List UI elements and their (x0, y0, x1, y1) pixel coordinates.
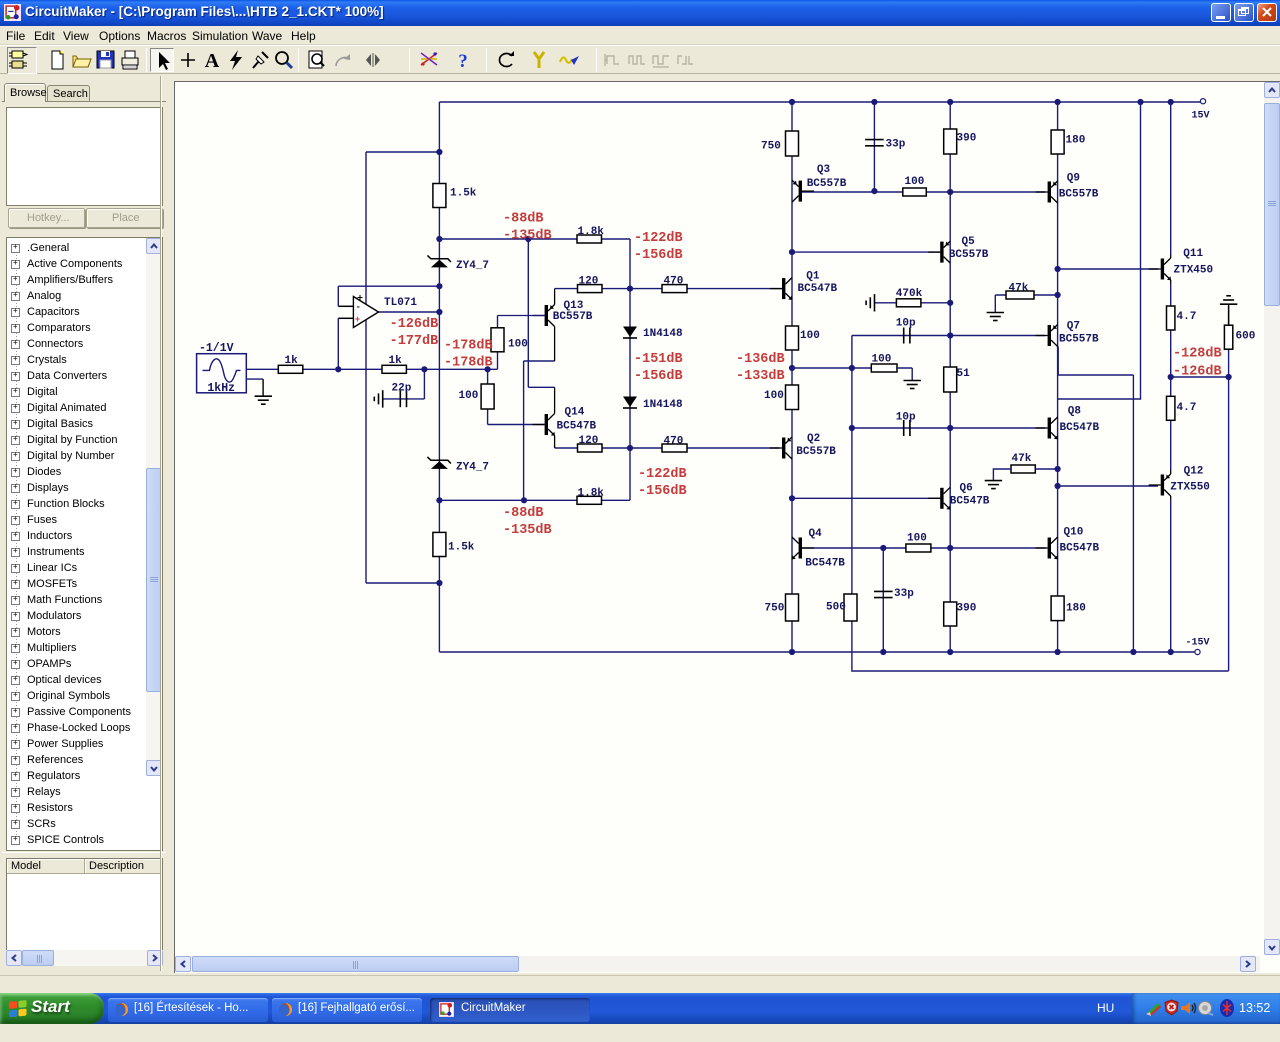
tree scrollbar (146, 238, 162, 776)
wire Q5/Q6 C-E column x950 (949, 192, 951, 652)
language (1097, 1001, 1114, 1015)
wire Q9/Q7 column x1058 (1057, 154, 1059, 399)
resistor R 120 (upper) (578, 285, 603, 293)
wire output node wire y377 (1171, 376, 1229, 378)
resistor R 1k (feedback) (382, 365, 406, 373)
transistor Q10 BC547B (1036, 537, 1058, 559)
wire 600/output column x1229 (1228, 307, 1230, 671)
resistor R 180 (lower) (1051, 596, 1064, 621)
node out-600 (1226, 374, 1232, 380)
resistor R 120 (lower) (578, 444, 603, 452)
ground ground G3 (470k) (866, 294, 874, 311)
node in+ (335, 366, 341, 372)
node rail-33p (871, 99, 877, 105)
node fb-in (436, 283, 442, 289)
resistor R 100 (Q13 base) (491, 328, 504, 352)
wire opamp -in riser (337, 286, 339, 306)
wire +15V top rail y102 (439, 101, 1203, 103)
wire source ground stub (262, 379, 264, 396)
resistor R 1k (input) (278, 365, 303, 373)
node 47k1 (1055, 292, 1061, 298)
ground ground G4 (100) (904, 381, 921, 389)
node 390-base (947, 189, 953, 195)
wire 33p-2 column x883 (882, 548, 884, 652)
resistor R 600 (1224, 325, 1232, 349)
transistor Q13 BC557B (533, 289, 555, 361)
wire zener node to 1.8k wire y239 (439, 238, 630, 240)
wire Q3-base / 390 / Q9-base net y192 (801, 191, 1046, 193)
resistor R 750 (upper) (786, 131, 799, 156)
resistor R 390 (lower) (944, 602, 957, 626)
transistor Q3 BC557B (792, 180, 814, 202)
start button (0, 993, 104, 1024)
capacitor C 33p (upper) (865, 140, 884, 146)
wire Q8 node to Q12-base wire y486 (1058, 485, 1158, 487)
wire opamp -in stub (338, 305, 353, 307)
wire Q14-emitter /120/470/ Q2-base wire y448 (555, 447, 779, 449)
signal generator V1 -1/1V 1kHz (197, 354, 247, 393)
wire Q13-emitter /120/470/ Q1-base wire y288 (555, 288, 782, 290)
ground ground G7 (600 top) (1220, 296, 1237, 304)
wire Q7 collector jog to x1133 (1058, 347, 1133, 376)
node rail-180 (1055, 99, 1061, 105)
node 10p2 (947, 425, 953, 431)
wire Q14 collector jog y387 (528, 386, 554, 388)
wire Q11/Q12 emitter column x1171 (1170, 284, 1172, 470)
wire 47k ground stub x995 (994, 295, 996, 313)
terminal +15V (1200, 99, 1205, 104)
node rail-390b (947, 649, 953, 655)
node rail-33p2 (880, 649, 886, 655)
wire -15V bottom rail y652 (439, 651, 1197, 653)
resistor R 47k (upper) (1006, 291, 1034, 299)
node diode-top (627, 286, 633, 292)
wire output return bottom loop y671 (852, 652, 1229, 671)
node q9c (1055, 266, 1061, 272)
wire feedback/500 column x852 (upper) (851, 336, 853, 653)
tree box (6, 237, 163, 851)
node q12-base-t (1055, 483, 1061, 489)
wire opamp -in feedback wire y286 (338, 285, 439, 287)
transistor Q7 BC557B (1036, 325, 1058, 347)
resistor R 4.7 (upper) (1167, 306, 1175, 330)
transistor Q6 BC547B (928, 487, 950, 509)
bottom scrollbar (175, 956, 1260, 972)
ground ground G5 (47k upper) (987, 313, 1004, 321)
node rail-390 (947, 99, 953, 105)
wire source ground lead (246, 378, 263, 380)
transistor Q12 ZTX550 (1149, 470, 1171, 499)
panel horizontal scrollbar (6, 950, 163, 966)
resistor R 100 (to gnd) (871, 364, 897, 372)
ground ground G6 (47k lower) (985, 481, 1002, 489)
wire 10p / Q7-base wire y335 (852, 335, 1045, 337)
wire diode chain column x630 (629, 239, 631, 500)
buttons (8, 208, 85, 228)
resistor R 100 (Q3-Q9) (903, 188, 927, 196)
wire Q1-collector to Q5-base wire y252 (792, 251, 942, 253)
wire feedback left rail x366 (365, 152, 367, 583)
resistor R 500 (844, 594, 857, 621)
node -136dB node (789, 365, 795, 371)
resistor R 1.8k (upper) (577, 235, 602, 243)
wire Q13 collector drop x523 (523, 361, 525, 500)
wire lower 1.8k wire y500 (439, 499, 630, 501)
wire Q14 base wire y424 (488, 424, 545, 426)
diode D 1N4148 (upper) (623, 327, 637, 338)
node fb-bot (436, 580, 442, 586)
resistor R 180 (upper) (1051, 130, 1064, 154)
node 22p (421, 366, 427, 372)
wire 33p column x874 (873, 102, 875, 191)
resistor R 470 (upper) (662, 285, 687, 293)
svg-text:?: ? (458, 51, 468, 72)
node 470k (947, 300, 953, 306)
node rail-180b (1055, 649, 1061, 655)
resistor R 100 (Q4-Q10) (906, 544, 931, 552)
left panel right edge (160, 76, 161, 971)
node opamp-out (436, 309, 442, 315)
wire 390 top column x950 (949, 102, 951, 192)
right scrollbar (1264, 82, 1280, 955)
wire feedback top link y152 (366, 151, 439, 153)
capacitor C 22p (400, 391, 406, 408)
resistor R 750 (lower) (786, 594, 799, 621)
wire Q8 collector riser x1140 to +15V (1057, 102, 1140, 399)
node fb-100 (849, 365, 855, 371)
transistor Q5 BC557B (928, 241, 950, 263)
tabs (4, 83, 46, 102)
wire Q13 collector jog y361 (524, 360, 555, 362)
wire Q11 collector riser x1171 (1170, 102, 1172, 255)
node rail-750b (789, 649, 795, 655)
wire Q8/Q10 column x1058 lower (1057, 399, 1059, 652)
transistor Q1 BC547B (770, 278, 792, 300)
resistor R 390 (upper) (944, 129, 957, 154)
node rail-q12 (1168, 649, 1174, 655)
wire Q13 base link (498, 315, 546, 317)
node q6e (947, 545, 953, 551)
wire Q13-base/100 column x497 (497, 316, 499, 370)
transistor Q11 ZTX450 (1149, 255, 1171, 284)
transistor Q8 BC547B (1036, 417, 1058, 439)
wire 600 gnd stub (1228, 304, 1230, 325)
ground ground G1 (source) (255, 396, 272, 404)
node diode-bot (627, 445, 633, 451)
node out (1168, 374, 1174, 380)
node q2c (789, 495, 795, 501)
tray (1132, 993, 1280, 1024)
node lower-1.8k (436, 497, 442, 503)
zener diode D ZY4_7 (upper) (427, 255, 451, 262)
wire input signal net y369 (246, 368, 497, 370)
node 100-q14 (485, 366, 491, 372)
wire Q12 collector drop x1171 (1170, 499, 1172, 652)
node rail-1133 (1130, 649, 1136, 655)
wire 22p drop x424 (423, 369, 425, 399)
resistor R 100 (Q14 base) (481, 384, 494, 409)
wire Q4-base / 100 / Q10-base wire y548 (801, 547, 1045, 549)
resistor R 1.8k (lower) (577, 496, 602, 504)
resistor R 1.5k (lower) (433, 532, 446, 556)
task buttons (108, 998, 268, 1022)
wire 470k wire y303 (875, 302, 951, 304)
ground ground G2 (22p) (374, 390, 382, 407)
wire opamp +in stub (338, 317, 353, 319)
wire Q9 node to Q11-base wire y269 (1058, 268, 1158, 270)
resistor R 1.5k (upper) (433, 184, 446, 208)
node 33p2-top (880, 545, 886, 551)
capacitor C 33p (lower) (874, 591, 893, 597)
wire Q3/Q1/Q2/Q4 C-E column x792 (791, 102, 793, 652)
transistor Q9 BC557B (1036, 181, 1058, 203)
wire feedback bottom link y583 (366, 582, 439, 584)
resistor R 47k (lower) (1011, 465, 1035, 473)
wire opamp output wire y312 (379, 311, 440, 313)
wire Q2-collector to Q6-base wire y498 (792, 497, 941, 499)
wire Q1/Q2 emitter node to 100/gnd wire y368 (792, 367, 912, 369)
node 47k2 (1055, 466, 1061, 472)
wire 47k-2 to gnd stub (993, 469, 1011, 481)
resistor R 470k (896, 299, 921, 307)
terminal -15V (1195, 649, 1200, 654)
wire Q14 collector feed x528 (527, 239, 529, 387)
node q13c-1.8k (521, 497, 527, 503)
node rail-q8 (1137, 99, 1143, 105)
resistor R 51 (944, 367, 957, 392)
wire 180 top drop x1058 (1057, 102, 1059, 154)
capacitor C 10p (lower) (904, 420, 910, 436)
wire 47k to Q9/Q7 node wire y295 (995, 294, 1057, 296)
transistor Q4 BC547B (792, 537, 814, 559)
transistor Q14 BC547B (533, 387, 555, 448)
model/description (2, 852, 166, 854)
wire opamp +in drop (337, 318, 339, 369)
node q1c (789, 249, 795, 255)
node 10p1 (947, 332, 953, 338)
wire 47k-2 right lead (1035, 468, 1057, 470)
bottom status strip groove (0, 975, 1280, 976)
node fb-10p2 (849, 425, 855, 431)
node 33p-base (871, 188, 877, 194)
op-amp U1 TL071 (353, 297, 378, 328)
wire x1133 drop to -15V rail (1132, 375, 1134, 652)
resistor R 100 (Q2 emitter) (786, 385, 799, 410)
wire 22p to ground leg y399 (383, 398, 425, 400)
node 1.8k-q14 (525, 236, 531, 242)
capacitor C 10p (upper) (904, 328, 910, 344)
svg-text:A: A (205, 50, 220, 72)
wire main V-rail x439 (zener/opamp column) (438, 102, 440, 652)
transistor Q2 BC557B (770, 437, 792, 459)
wire Q14-base/100 column x488 (487, 369, 489, 424)
node fb-top (436, 149, 442, 155)
wire 10p-2 / Q8-base wire y428 (852, 427, 1045, 429)
node zener1 (436, 236, 442, 242)
diode D 1N4148 (lower) (623, 397, 637, 408)
zener diode D ZY4_7 (lower) (427, 457, 451, 464)
wire 100 to ground stub x912 (911, 368, 913, 381)
resistor R 470 (lower) (662, 444, 687, 452)
node rail-q11 (1168, 99, 1174, 105)
resistor R 100 (Q1 emitter) (786, 326, 799, 350)
node rail-750 (789, 99, 795, 105)
preview box (6, 107, 163, 206)
resistor R 4.7 (lower) (1167, 396, 1175, 420)
